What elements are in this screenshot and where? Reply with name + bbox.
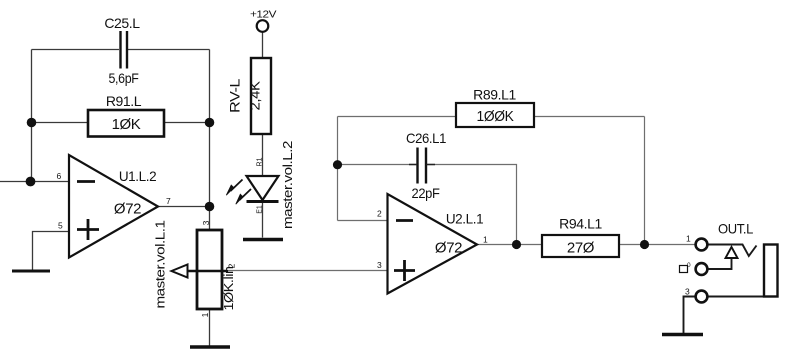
svg-text:0: 0: [687, 262, 691, 269]
svg-text:OUT.L: OUT.L: [718, 221, 754, 237]
svg-text:5: 5: [58, 221, 63, 231]
svg-text:R91.L: R91.L: [106, 93, 142, 109]
svg-text:master.vol.L.1: master.vol.L.1: [153, 220, 168, 308]
svg-text:2: 2: [377, 209, 382, 219]
svg-text:2: 2: [227, 263, 237, 268]
svg-text:Ø72: Ø72: [435, 240, 462, 257]
svg-text:R94.L1: R94.L1: [559, 216, 602, 232]
svg-text:3: 3: [201, 220, 211, 225]
svg-text:2,4K: 2,4K: [248, 81, 263, 110]
svg-text:R1: R1: [257, 157, 264, 166]
svg-text:7: 7: [166, 196, 171, 206]
svg-text:5,6pF: 5,6pF: [109, 70, 139, 86]
svg-text:1: 1: [200, 312, 210, 317]
svg-text:3: 3: [377, 260, 382, 270]
svg-text:3: 3: [685, 287, 690, 297]
svg-text:22pF: 22pF: [412, 185, 440, 201]
svg-text:1: 1: [483, 235, 488, 245]
svg-text:Ø72: Ø72: [114, 201, 141, 218]
svg-text:RV-L: RV-L: [228, 78, 243, 113]
svg-text:6: 6: [57, 171, 62, 181]
svg-text:27Ø: 27Ø: [567, 240, 595, 257]
svg-text:E1: E1: [257, 205, 264, 214]
svg-text:U1.L.2: U1.L.2: [119, 169, 156, 184]
svg-text:+12V: +12V: [250, 9, 276, 21]
svg-text:R89.L1: R89.L1: [473, 87, 516, 103]
svg-text:1ØØK: 1ØØK: [477, 108, 514, 125]
svg-text:1ØK.lin: 1ØK.lin: [221, 266, 236, 310]
svg-text:U2.L.1: U2.L.1: [446, 212, 483, 227]
svg-text:1ØK: 1ØK: [112, 116, 141, 133]
svg-text:C26.L1: C26.L1: [406, 130, 447, 146]
svg-text:master.vol.L.2: master.vol.L.2: [280, 141, 295, 229]
svg-text:C25.L: C25.L: [104, 15, 140, 31]
svg-text:1: 1: [686, 234, 691, 244]
